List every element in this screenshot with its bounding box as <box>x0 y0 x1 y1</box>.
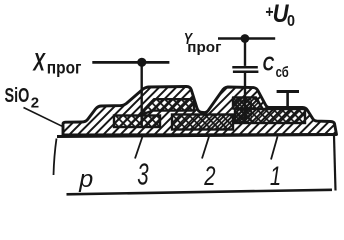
upper contact block over electrode 1 <box>233 97 263 108</box>
svg-text:прог: прог <box>187 40 221 56</box>
svg-text:C: C <box>263 53 275 75</box>
svg-text:0: 0 <box>287 13 295 31</box>
node: Y junction dot <box>241 34 250 43</box>
dense contact stack shading <box>234 99 252 123</box>
contact terminal T on electrode 1 <box>277 90 299 93</box>
substrate left edge <box>54 139 57 176</box>
oxide SiO2 layer body with bumpy surface profile <box>63 87 337 136</box>
electrode 2 (low, middle) <box>172 115 233 130</box>
svg-text:SiO: SiO <box>5 84 30 107</box>
electrode 1 (low, right) <box>235 109 305 123</box>
wire: Y prog horizontal line <box>218 37 275 40</box>
substrate top line <box>57 135 336 137</box>
wire: capacitor to contact block <box>244 73 246 119</box>
wire: X prog horizontal line <box>92 61 169 64</box>
electrode 3 (low, left) <box>114 116 160 128</box>
svg-text:1: 1 <box>270 161 281 192</box>
leader line 2 <box>202 137 209 159</box>
wire: Y vertical to capacitor <box>244 39 246 66</box>
capacitor C_sb bottom plate <box>233 70 259 73</box>
leader line 3 <box>135 137 143 159</box>
svg-text:2: 2 <box>203 161 215 192</box>
leader line SiO2 <box>24 108 65 128</box>
wire: X vertical drop to electrode 3 <box>140 62 142 126</box>
svg-text:p: p <box>78 167 93 193</box>
svg-text:3: 3 <box>137 156 149 191</box>
svg-text:2: 2 <box>31 94 39 111</box>
svg-text:прог: прог <box>47 57 82 77</box>
substrate right edge <box>334 136 336 191</box>
substrate bottom edge <box>67 190 333 195</box>
node: X junction dot <box>137 58 146 67</box>
svg-text:X: X <box>32 47 46 76</box>
upper-level electrode (left, over electrode 3) <box>138 99 194 116</box>
leader line 1 <box>271 137 278 160</box>
capacitor C_sb top plate <box>232 66 257 69</box>
svg-text:сб: сб <box>276 64 289 81</box>
